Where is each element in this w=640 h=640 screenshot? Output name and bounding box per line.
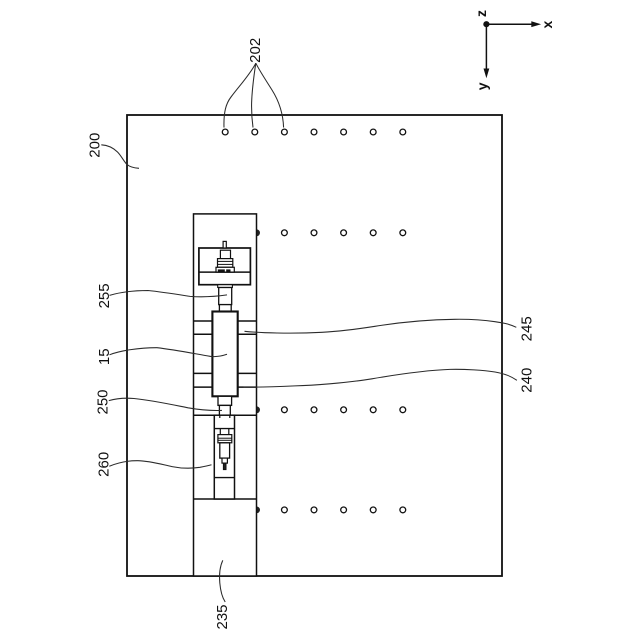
leader 245 [245, 319, 517, 333]
drill tip [223, 463, 226, 470]
leader 235 [220, 560, 226, 602]
carriage column [194, 214, 257, 576]
upper shaft 255 [219, 288, 232, 305]
svg-text:260: 260 [96, 452, 113, 477]
svg-text:245: 245 [519, 316, 536, 341]
guide band 245 [194, 321, 257, 334]
hole row 4 [282, 507, 406, 513]
clamp pads [218, 269, 225, 272]
svg-text:202: 202 [247, 38, 264, 63]
hole row 3 [282, 407, 406, 413]
drill body 260 [220, 443, 230, 458]
svg-text:15: 15 [96, 348, 113, 365]
svg-text:250: 250 [95, 389, 112, 414]
upper shaft flange [218, 285, 233, 288]
collar tick marks [219, 415, 221, 418]
lower stem [218, 396, 232, 405]
drill step [222, 458, 227, 463]
inner column box [214, 415, 234, 499]
leader 202 branches [224, 63, 284, 127]
guide band 240 [194, 373, 257, 387]
leader 250 [109, 398, 222, 410]
hole row 2 [282, 230, 406, 236]
chuck piece C [216, 267, 234, 272]
tool block 15 [212, 312, 237, 397]
leader 255 [110, 291, 228, 297]
top stem [223, 241, 226, 248]
axis marker [483, 21, 541, 78]
drill neck [220, 429, 229, 435]
svg-text:x: x [539, 20, 555, 28]
svg-text:235: 235 [214, 604, 231, 629]
svg-text:200: 200 [86, 133, 103, 158]
leader 15 [110, 348, 228, 357]
collar bottom line [214, 428, 234, 430]
svg-text:240: 240 [519, 368, 536, 393]
lower connector 250 [219, 405, 230, 415]
leader 200 [101, 145, 139, 169]
spindle motor housing [199, 248, 251, 285]
base plate 200 outline [127, 115, 502, 576]
inner lower line [214, 477, 234, 479]
leader 240 [244, 369, 517, 387]
chuck piece B striped [218, 259, 233, 268]
column divider at y=499 (top of base 235) [194, 498, 257, 500]
hole row 1 [222, 129, 405, 135]
partial holes on carriage edge [257, 229, 260, 513]
chuck piece A [220, 250, 230, 258]
svg-text:255: 255 [96, 283, 113, 308]
upper connector [219, 305, 231, 312]
leader 260 [109, 461, 211, 468]
svg-text:y: y [474, 82, 490, 90]
drill striped block [218, 435, 232, 443]
column divider at y=415 [194, 414, 257, 416]
svg-text:z: z [473, 10, 489, 17]
